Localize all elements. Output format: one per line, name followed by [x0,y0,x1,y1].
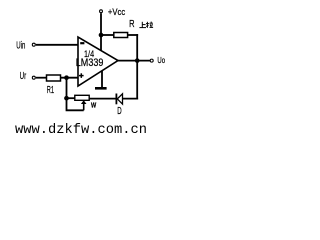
wire R1 to non-inverting input [61,77,79,79]
svg-text:+Vcc: +Vcc [108,6,126,17]
output terminal Uo [150,55,165,65]
wire output node down to diode branch [136,61,138,100]
wiper arrow [83,103,85,110]
diode D (cathode to the left) [116,94,122,117]
wire node A down to potentiometer node [66,78,68,99]
svg-text:Ur: Ur [20,71,27,82]
svg-text:Uo: Uo [157,55,165,65]
wire +Vcc down to comparator top edge [100,13,102,50]
node C: Vcc / pull-up resistor junction [99,33,104,38]
input terminal Ur [20,71,36,82]
non-inverting input '+' marker [79,73,84,78]
svg-text:Uin: Uin [16,39,25,51]
svg-text:R1: R1 [47,83,54,95]
op-amp U1: 1/4 LM339 comparator triangle [78,37,118,86]
resistor R (pull-up) [114,18,135,38]
node A: junction at non-inverting input [64,75,69,80]
potentiometer W [67,95,97,110]
svg-text:www.dzkfw.com.cn: www.dzkfw.com.cn [15,122,147,134]
svg-text:LM339: LM339 [76,57,104,69]
output node junction [135,58,140,63]
wire comparator output to terminal Uo [118,60,150,62]
wire Ur terminal to resistor R1 [36,77,47,79]
resistor R1 [47,75,61,95]
label 上拉 (pull-up) hand-drawn glyphs [139,22,153,28]
label 1/4 LM339 [76,48,104,69]
wire corner down to output node [136,34,138,61]
wiper return wire to node B [67,98,84,110]
svg-text:R: R [129,18,135,29]
inverting input '-' marker [80,42,84,44]
node B: potentiometer left junction [64,96,69,101]
wire node B to potentiometer body [67,97,75,99]
上 [141,22,143,28]
power terminal +Vcc [100,6,126,17]
svg-text:W: W [91,102,96,110]
input terminal Uin [16,39,35,51]
wire node C to resistor R [101,34,114,36]
wire Uin terminal to inverting input [36,44,78,46]
svg-text:D: D [117,104,121,116]
wire R to output corner [128,34,139,36]
ground on comparator lower edge [95,71,107,90]
wire diode cathode to potentiometer [89,98,116,100]
wire corner to diode anode [122,98,138,100]
拉 [146,22,148,28]
